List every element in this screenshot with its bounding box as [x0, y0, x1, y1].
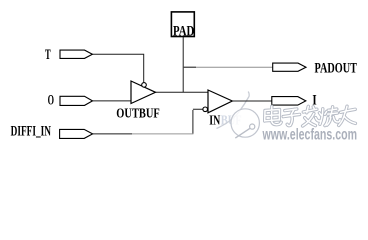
svg-text:OUTBUF: OUTBUF — [116, 107, 160, 122]
svg-text:PAD: PAD — [173, 24, 194, 40]
svg-text:T: T — [45, 47, 51, 63]
svg-text:www.elecfans.com: www.elecfans.com — [262, 126, 357, 143]
svg-text:DIFFI_IN: DIFFI_IN — [11, 123, 52, 139]
svg-text:O: O — [48, 93, 54, 109]
svg-text:PADOUT: PADOUT — [315, 61, 358, 77]
svg-text:IN: IN — [209, 113, 220, 128]
